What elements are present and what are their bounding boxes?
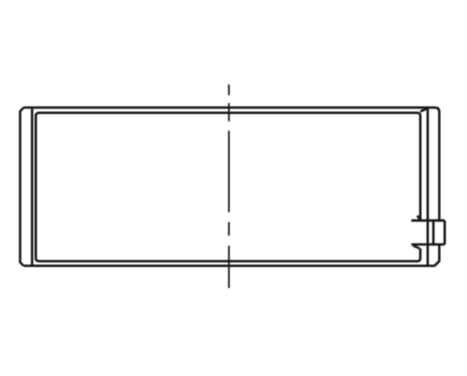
lug right edge xyxy=(444,221,446,245)
lug chamfer upper xyxy=(417,216,420,220)
wire top-right transition diagonal xyxy=(420,108,427,111)
lug chamfer lower xyxy=(413,246,419,249)
wire left outer edge with chamfers xyxy=(20,108,24,266)
lug bottom line xyxy=(411,243,444,245)
wire bottom outer edge xyxy=(24,265,436,267)
wire right outer vertical lower with chamfer xyxy=(435,245,440,266)
lug left edge xyxy=(432,221,434,245)
wire main face inner contour xyxy=(36,113,421,261)
centerline xyxy=(228,85,230,289)
wire right middle vertical xyxy=(427,108,429,265)
wire left inner vertical xyxy=(31,108,33,266)
wire top outer edge and right outer vertical upper xyxy=(24,108,440,221)
lug top line xyxy=(411,219,444,221)
